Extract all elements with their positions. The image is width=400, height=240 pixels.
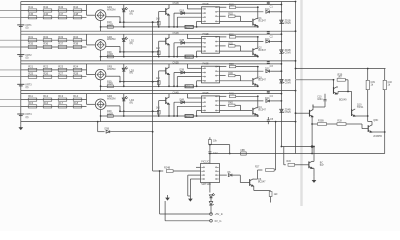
resistor R38 — [73, 45, 82, 48]
Q4A collector wire — [168, 94, 170, 98]
resistor R30 wire — [284, 164, 286, 166]
resistor R23 — [58, 68, 67, 71]
resistor R35 — [28, 45, 37, 48]
svg-text:R47: R47 — [58, 12, 63, 16]
channel 1 row join wire — [86, 5, 88, 16]
svg-text:R4C: R4C — [229, 94, 234, 96]
channel 3 lower collect wire — [101, 85, 258, 87]
Q7 collector wire — [312, 160, 314, 162]
svg-text:R30B: R30B — [318, 120, 324, 122]
channel 3 sense wire — [120, 81, 159, 83]
diode D3B — [174, 72, 202, 74]
Q2 collector wire — [256, 47, 258, 49]
LED LD5 — [209, 195, 212, 198]
optocoupler IC4 — [202, 96, 220, 113]
resistor R16 — [43, 105, 52, 108]
svg-text:R48: R48 — [73, 12, 78, 16]
IC3 pin1 wire — [187, 67, 201, 69]
Q2A base wire — [159, 40, 166, 42]
diode D4C output wire — [220, 100, 264, 102]
diode D2B — [174, 42, 202, 44]
svg-text:R2D: R2D — [228, 43, 233, 45]
chassis ground KRT3 — [17, 83, 24, 85]
supply wire to bottom section — [210, 153, 312, 155]
resistor R26 — [43, 75, 52, 78]
resistor R1A 1k — [158, 12, 160, 27]
svg-text:(R): (R) — [130, 101, 134, 104]
transistor Q2 — [252, 48, 254, 55]
top rail A of channel 1 (wire) — [21, 1, 296, 3]
channel 1 input stub row 1 (wire) — [0, 10, 21, 12]
R2B drop wire — [347, 80, 349, 92]
svg-text:R27: R27 — [255, 167, 260, 169]
bridge rectifier GR2 — [95, 40, 106, 51]
regulator top rail wire — [296, 68, 386, 70]
svg-text:PH1B: PH1B — [203, 4, 209, 6]
varistor VDR1 — [185, 25, 193, 28]
channel 4 sense wire — [120, 110, 159, 112]
channel 3 row join wire — [86, 64, 88, 75]
channel 4 input stub row 2 (wire) — [0, 105, 21, 107]
IC3 pin4 right wire — [220, 80, 253, 82]
drop wire from channel area — [275, 122, 277, 170]
bus A vertical wire — [280, 2, 282, 147]
resistor R4C — [220, 95, 227, 97]
bridge rectifier GR4 — [95, 99, 106, 110]
rail B of channel 4 (wire) — [21, 93, 282, 95]
svg-text:+5V_In: +5V_In — [215, 212, 224, 216]
svg-text:R1D: R1D — [228, 14, 233, 16]
resistor R28 — [337, 123, 346, 126]
regulator base wire — [296, 79, 334, 81]
load resistor R32B — [384, 69, 386, 81]
diode D3C — [266, 70, 270, 73]
varistor VDR4 — [185, 115, 193, 118]
sense bus vertical wire — [152, 22, 154, 171]
svg-text:R28: R28 — [73, 71, 78, 75]
transistor Q10 — [351, 109, 353, 116]
Q3A collector wire — [168, 64, 170, 68]
bridge GR3 bottom wire — [100, 80, 102, 91]
resistor R18 — [73, 105, 82, 108]
channel 4 input stub row 1 (wire) — [0, 99, 21, 101]
IC4 pin4 right wire — [220, 110, 253, 112]
svg-text:NTC: NTC — [185, 116, 190, 118]
D2B anode wire — [173, 43, 175, 57]
D1B anode wire — [173, 13, 175, 27]
svg-text:R1C: R1C — [229, 5, 234, 7]
svg-text:R15: R15 — [28, 101, 33, 105]
resistor R43 — [58, 9, 67, 12]
varistor VDR2 — [185, 55, 193, 58]
svg-text:D3B: D3B — [180, 70, 185, 72]
IC4 pin1 wire — [187, 97, 201, 99]
Q8 collector wire — [370, 124, 373, 126]
svg-text:R32: R32 — [43, 35, 48, 39]
U5 pin3 wire — [188, 174, 201, 176]
transistor Q3A — [165, 68, 167, 75]
resistor R30B — [318, 123, 327, 126]
resistor R41 — [28, 9, 37, 12]
svg-text:R4D: R4D — [228, 103, 233, 105]
svg-text:R43: R43 — [58, 5, 63, 9]
svg-text:1k0: 1k0 — [338, 76, 343, 79]
svg-text:0V_In: 0V_In — [215, 219, 222, 223]
resistor R13 — [58, 98, 67, 101]
divider wire — [312, 123, 317, 125]
resistor R2D — [220, 45, 226, 47]
svg-text:PH2B: PH2B — [203, 34, 209, 36]
resistor R19 100R — [107, 26, 113, 29]
LED LD3 — [122, 68, 125, 71]
svg-text:BC547: BC547 — [258, 180, 266, 183]
IC2 pin3 wire — [177, 46, 201, 48]
svg-text:W005M: W005M — [107, 68, 115, 71]
svg-text:NTC: NTC — [185, 57, 190, 59]
resistor R3C — [220, 66, 227, 68]
channel 4 row join wire — [86, 94, 88, 105]
svg-text:R12: R12 — [43, 94, 48, 98]
svg-text:2N3055: 2N3055 — [373, 135, 382, 138]
channel 4 lower collect wire — [101, 115, 258, 117]
transistor Q9 — [333, 80, 335, 88]
Q1A emitter wire — [168, 15, 170, 27]
load resistor R31B — [367, 69, 369, 81]
regulator bottom rail wire — [312, 153, 385, 155]
svg-text:R17: R17 — [58, 101, 63, 105]
svg-text:D2B: D2B — [180, 40, 185, 42]
svg-text:R30: R30 — [287, 161, 292, 163]
faint page fold line — [300, 0, 302, 206]
capacitor C2 — [267, 30, 269, 33]
IC3 pin4 wire — [197, 80, 202, 82]
IC2 pin4 wire — [197, 50, 202, 52]
resistor R3A 1k — [158, 71, 160, 86]
svg-text:CN4B: CN4B — [173, 92, 180, 94]
bottom rail below channel 4 (wire) — [21, 121, 296, 123]
diode D2C output wire — [220, 41, 264, 43]
diode D1C — [266, 10, 270, 13]
svg-text:R34: R34 — [73, 35, 78, 39]
Q1 collector wire — [256, 18, 258, 20]
LED LD1 branch wire — [123, 5, 125, 27]
svg-text:R35: R35 — [28, 42, 33, 46]
resistor R31 — [28, 39, 37, 42]
Q11 emitter wire — [311, 116, 314, 118]
capacitor C1 — [267, 1, 269, 4]
svg-text:BC547: BC547 — [258, 79, 266, 82]
svg-text:R21: R21 — [28, 65, 33, 69]
connector pin 0V_In — [210, 220, 213, 223]
svg-text:PH4B: PH4B — [203, 93, 209, 95]
U5 pin1 wire — [196, 166, 201, 168]
transistor Q4 — [252, 108, 254, 115]
svg-text:PH3B: PH3B — [203, 64, 209, 66]
Q6 emitter wire — [252, 185, 255, 187]
svg-text:R26: R26 — [43, 71, 48, 75]
IC1 pin3 wire — [177, 16, 201, 18]
Q3A emitter wire — [168, 74, 170, 86]
svg-text:CN3B: CN3B — [173, 63, 180, 65]
top rail A of channel 2 (wire) — [21, 30, 296, 32]
U5 pin4 wire — [190, 178, 200, 180]
svg-text:R22: R22 — [43, 65, 48, 69]
bridge GR2 output wire — [106, 46, 120, 48]
resistor R25 — [28, 75, 37, 78]
rail B of channel 3 (wire) — [21, 63, 282, 65]
svg-text:D3C: D3C — [265, 69, 270, 71]
U5 bottom wire — [209, 183, 211, 193]
svg-text:BC547: BC547 — [258, 49, 266, 52]
resistor R11 — [28, 98, 37, 101]
capacitor C8B — [241, 152, 247, 155]
ground at sense area — [167, 195, 169, 198]
resistor R27 — [58, 75, 67, 78]
ground at bottom of left bus — [20, 124, 22, 127]
channel 2 lower collect wire — [101, 56, 258, 58]
svg-text:(R): (R) — [130, 72, 134, 75]
svg-text:NTC: NTC — [185, 86, 190, 88]
Q4 collector wire — [256, 107, 258, 109]
resistor R30 — [288, 163, 295, 166]
svg-text:C5V6: C5V6 — [285, 111, 292, 114]
channel 2 row2 wire — [21, 46, 87, 48]
bus B vertical wire — [295, 2, 297, 80]
resistor R32 — [43, 39, 52, 42]
wire to Q10 — [351, 92, 353, 110]
channel 3 input stub row 1 (wire) — [0, 69, 21, 71]
resistor R15 — [28, 105, 37, 108]
resistor R14 — [73, 98, 82, 101]
svg-text:R36: R36 — [43, 42, 48, 46]
resistor R4D — [220, 104, 226, 106]
capacitor C12 — [208, 151, 211, 153]
svg-text:D2C: D2C — [265, 39, 270, 41]
svg-text:W005M: W005M — [107, 9, 115, 12]
chassis ground KRT4 — [17, 113, 24, 115]
resistor R24B — [166, 170, 173, 173]
resistor R34 — [73, 39, 82, 42]
svg-text:R46: R46 — [43, 12, 48, 16]
svg-text:R18: R18 — [73, 101, 78, 105]
Q11 collector wire — [312, 109, 314, 111]
resistor R46 — [43, 16, 52, 19]
bridge GR3 output wire — [106, 75, 120, 77]
left input bus wire — [20, 2, 22, 125]
transistor Q8 — [367, 125, 369, 132]
svg-text:C8B: C8B — [240, 150, 245, 152]
varistor VDR3 — [185, 85, 193, 88]
svg-text:R37: R37 — [58, 42, 63, 46]
Q9 collector stub — [337, 86, 338, 88]
diode D2C — [266, 40, 270, 43]
resistor R44 — [73, 9, 82, 12]
svg-text:D1B: D1B — [180, 10, 185, 12]
svg-text:W005M: W005M — [107, 38, 115, 41]
bridge GR1 output wire — [106, 16, 120, 18]
D4B anode wire — [173, 102, 175, 116]
resistor R47 — [58, 16, 67, 19]
Q3A base wire — [159, 70, 166, 72]
IC2 pin4 right wire — [220, 50, 253, 52]
Q4 emitter wire — [256, 114, 258, 116]
svg-text:BC547: BC547 — [258, 108, 266, 111]
bus A to regulator wire — [281, 146, 314, 148]
resistor R28 — [73, 75, 82, 78]
svg-text:100R: 100R — [107, 83, 113, 86]
zener ZD5 — [210, 198, 212, 202]
Q9 emitter wire — [337, 93, 338, 95]
zener ZD2 — [280, 50, 283, 54]
IC1 pin4 wire — [197, 20, 202, 22]
R32B bottom wire — [384, 90, 386, 132]
channel 2 row join wire — [86, 34, 88, 45]
optocoupler IC2 — [202, 37, 220, 54]
transistor Q6 — [249, 179, 251, 186]
svg-text:BD249: BD249 — [339, 98, 347, 101]
svg-text:TIP41: TIP41 — [357, 106, 364, 109]
LED LD2 branch wire — [123, 34, 125, 56]
transistor Q2A — [165, 38, 167, 45]
resistor R24B wire — [153, 170, 164, 172]
svg-text:R3D: R3D — [228, 73, 233, 75]
resistor R1C — [220, 6, 227, 8]
svg-text:(R): (R) — [130, 12, 134, 15]
transistor Q4A — [165, 97, 167, 104]
svg-text:R16: R16 — [43, 101, 48, 105]
channel 4 row2 wire — [21, 105, 87, 107]
IC1 pin4 right wire — [220, 20, 253, 22]
svg-text:R14: R14 — [73, 94, 78, 98]
Q4A emitter wire — [168, 104, 170, 116]
Q4A base wire — [159, 100, 166, 102]
resistor R37 — [58, 45, 67, 48]
zener ZD4 — [280, 109, 283, 113]
resistor R4A 1k — [158, 101, 160, 116]
channel 1 row2 wire — [21, 16, 87, 18]
svg-text:R2C: R2C — [229, 34, 234, 36]
channel 1 input stub row 2 (wire) — [0, 16, 21, 18]
svg-text:D4B: D4B — [180, 99, 185, 101]
Q7 emitter wire — [312, 167, 314, 169]
svg-text:R28: R28 — [337, 120, 342, 122]
svg-text:W005M: W005M — [107, 98, 115, 101]
LED LD4 branch wire — [123, 94, 125, 116]
channel 4 row1 wire — [21, 99, 87, 101]
diode D6 wire — [220, 174, 227, 176]
channel 2 row1 wire — [21, 39, 87, 41]
svg-text:R44: R44 — [73, 5, 78, 9]
Q1A collector wire — [168, 5, 170, 9]
connector wire 1 — [159, 171, 161, 214]
diode D5B — [98, 131, 105, 133]
svg-text:R42: R42 — [43, 5, 48, 9]
svg-text:R45: R45 — [28, 12, 33, 16]
diode D6 — [228, 174, 232, 177]
svg-text:547: 547 — [320, 165, 325, 167]
svg-text:C5V6: C5V6 — [285, 22, 292, 25]
Q10 emitter wire — [355, 115, 368, 117]
svg-text:100R: 100R — [107, 112, 113, 115]
resistor R26 — [209, 137, 211, 139]
resistor R45 — [28, 16, 37, 19]
transistor Q11 — [309, 110, 311, 117]
svg-text:R38: R38 — [73, 42, 78, 46]
channel 3 row1 wire — [21, 69, 87, 71]
svg-text:Q8C: Q8C — [373, 119, 378, 122]
svg-text:(0): (0) — [26, 86, 29, 89]
IC4 pin3 wire — [177, 105, 201, 107]
IC1 pin1 wire — [187, 8, 201, 10]
svg-text:C5V6: C5V6 — [285, 52, 292, 55]
bridge rectifier GR3 — [95, 69, 106, 80]
resistor R12 — [43, 98, 52, 101]
bridge GR4 bottom wire — [100, 110, 102, 122]
diode D4B — [174, 101, 202, 103]
svg-text:C5V6: C5V6 — [285, 81, 292, 84]
IC4 pin4 wire — [197, 110, 202, 112]
diode D3C output wire — [220, 70, 264, 72]
channel 2 input stub row 1 (wire) — [0, 39, 21, 41]
Q3 emitter wire — [256, 84, 258, 86]
optocoupler IC3 — [202, 66, 220, 83]
transistor Q1A — [165, 8, 167, 15]
svg-text:R11: R11 — [28, 94, 33, 98]
channel 2 sense wire — [120, 51, 159, 53]
resistor R21 — [28, 68, 37, 71]
transistor Q1 — [252, 19, 254, 26]
svg-text:100n: 100n — [317, 98, 323, 101]
channel 1 sense wire — [120, 21, 159, 23]
svg-text:R24B: R24B — [164, 166, 170, 169]
svg-text:R41: R41 — [28, 5, 33, 9]
Q1 emitter wire — [256, 25, 258, 27]
Q11 base wire — [296, 112, 310, 114]
resistor R27 — [258, 169, 263, 171]
IC3 pin3 wire — [177, 76, 201, 78]
zener ZD1 — [280, 20, 283, 24]
svg-text:R13: R13 — [58, 94, 63, 98]
capacitor C4 — [267, 90, 269, 93]
resistor R49 100R — [107, 115, 113, 118]
bridge GR4 output wire — [106, 105, 120, 107]
svg-text:(R): (R) — [130, 42, 134, 45]
wire from R26 bottom to corner — [210, 144, 230, 146]
optocoupler IC1 — [202, 7, 220, 24]
svg-text:R23: R23 — [58, 65, 63, 69]
channel 3 row2 wire — [21, 76, 87, 78]
channel 2 input stub row 2 (wire) — [0, 46, 21, 48]
C10 bottom wire — [313, 106, 325, 108]
resistor R2A 1k — [158, 41, 160, 56]
diode D1C output wire — [220, 11, 264, 13]
LED LD4 — [122, 98, 125, 101]
resistor R3D — [220, 75, 226, 77]
ground below Q7 — [313, 177, 315, 180]
resistor R29 100R — [107, 55, 113, 58]
svg-text:R3C: R3C — [229, 64, 234, 66]
svg-text:(0): (0) — [26, 56, 29, 59]
diode D1B — [174, 12, 202, 14]
svg-text:R33: R33 — [58, 35, 63, 39]
svg-text:R27: R27 — [58, 71, 63, 75]
Q2 emitter wire — [256, 54, 258, 56]
transistor Q3 — [252, 78, 254, 85]
svg-text:R24: R24 — [73, 65, 78, 69]
bridge GR1 bottom wire — [100, 21, 102, 32]
micro IC U5 — [201, 164, 220, 183]
svg-text:NTC: NTC — [185, 27, 190, 29]
